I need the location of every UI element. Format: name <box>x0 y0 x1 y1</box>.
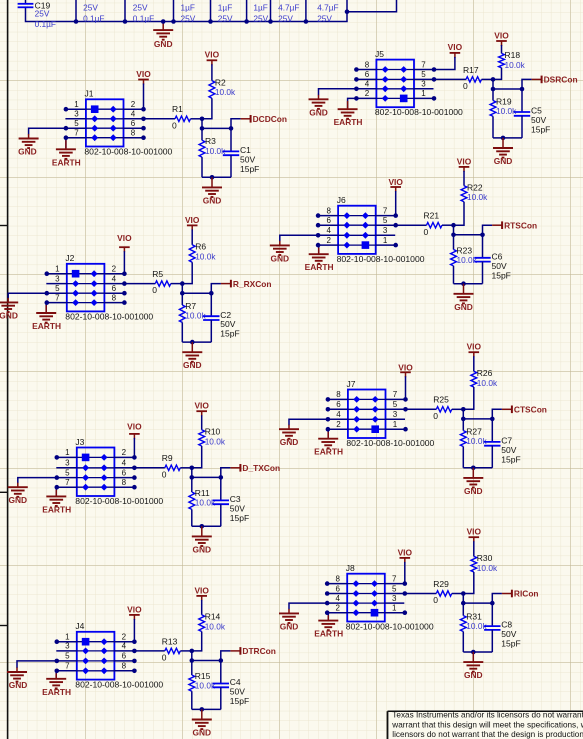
svg-text:GND: GND <box>464 486 483 496</box>
svg-text:7: 7 <box>393 390 398 399</box>
node junction at R13/R14 <box>190 649 195 654</box>
power port VIO (R22) <box>457 156 472 172</box>
svg-text:EARTH: EARTH <box>314 447 343 457</box>
wire J1 pin 7 to EARTH <box>65 138 67 149</box>
connector J4 802-10-008-10-001000 <box>55 621 164 690</box>
power port VIO (J8 pin 7) <box>398 547 413 563</box>
sheet border tick <box>0 625 8 627</box>
ground EARTH (J2) <box>32 313 61 331</box>
svg-text:R6: R6 <box>195 242 206 252</box>
port DCDCon <box>241 114 287 124</box>
ground GND (J5) <box>309 99 329 117</box>
svg-text:EARTH: EARTH <box>305 262 334 272</box>
wire node B to node C <box>192 476 221 478</box>
junction on rail upper segment <box>345 9 350 14</box>
svg-text:7: 7 <box>421 60 426 69</box>
wire node B to node C <box>454 234 483 236</box>
svg-text:802-10-008-10-001000: 802-10-008-10-001000 <box>346 438 434 448</box>
svg-text:6: 6 <box>131 119 136 128</box>
wire R3/C1 to GND <box>201 157 203 177</box>
capacitor C19 0.1uF <box>18 0 56 29</box>
svg-text:10.0k: 10.0k <box>477 563 498 573</box>
svg-text:15pF: 15pF <box>240 164 259 174</box>
wire R9 to node A <box>180 467 192 469</box>
svg-text:8: 8 <box>131 129 136 138</box>
wire VIO to J7 pin 7 <box>405 376 407 399</box>
svg-text:6: 6 <box>112 284 117 293</box>
svg-text:GND: GND <box>183 360 202 370</box>
wire J5 main row to R17 <box>434 78 466 80</box>
wire J6 main row to R21 <box>396 224 427 226</box>
svg-text:4: 4 <box>122 459 127 468</box>
resistor R17 0 <box>463 65 481 91</box>
svg-text:0.1µF: 0.1µF <box>35 19 56 29</box>
svg-text:3: 3 <box>74 110 79 119</box>
svg-text:DSRCon: DSRCon <box>544 75 578 85</box>
svg-text:GND: GND <box>270 253 289 263</box>
svg-text:802-10-008-10-001000: 802-10-008-10-001000 <box>75 680 163 690</box>
wire J2 pin 5 to GND <box>8 293 47 298</box>
svg-text:VIO: VIO <box>398 547 413 557</box>
wire J1 main row to R1 <box>144 118 176 120</box>
power port VIO (J3 pin 2) <box>127 422 142 439</box>
svg-text:10.0k: 10.0k <box>505 60 526 70</box>
svg-text:CTSCon: CTSCon <box>514 405 547 415</box>
power port VIO (J6 pin 7) <box>388 177 403 192</box>
wire node B to node C <box>463 602 492 604</box>
port RICon <box>502 589 539 599</box>
svg-text:VIO: VIO <box>194 585 209 595</box>
svg-text:1: 1 <box>393 420 398 429</box>
port RTSCon <box>492 220 537 230</box>
svg-text:5: 5 <box>383 216 388 225</box>
capacitor lead and labels 25V 0.1µF at x=76 <box>74 0 105 24</box>
svg-text:GND: GND <box>192 728 211 738</box>
svg-text:0: 0 <box>152 285 157 295</box>
svg-text:VIO: VIO <box>448 42 463 52</box>
wire VIO decoupling rail <box>26 0 397 22</box>
wire node B to node C <box>493 88 522 90</box>
svg-text:R9: R9 <box>162 453 173 463</box>
node B junction <box>491 87 496 92</box>
svg-text:50V: 50V <box>220 319 235 329</box>
svg-text:2: 2 <box>112 265 117 274</box>
svg-text:R17: R17 <box>463 65 479 75</box>
svg-text:10.0k: 10.0k <box>496 106 517 116</box>
svg-text:802-10-008-10-001000: 802-10-008-10-001000 <box>346 622 434 632</box>
svg-text:R27: R27 <box>466 426 482 436</box>
wire node C to port R_RXCon <box>211 284 221 294</box>
wire J8 pin 4 to GND <box>289 603 327 609</box>
ground EARTH (J5) <box>334 109 363 127</box>
svg-text:J8: J8 <box>346 563 355 573</box>
node junction at R9/R10 <box>190 466 195 471</box>
svg-text:J6: J6 <box>337 195 346 205</box>
svg-text:0.1µF: 0.1µF <box>83 13 104 23</box>
ground EARTH (J8) <box>314 621 343 639</box>
resistor R10 10.0k <box>199 427 226 447</box>
node junction at R17/R18 <box>491 77 496 82</box>
wire J8 main row to R29 <box>405 593 437 595</box>
svg-text:5: 5 <box>393 400 398 409</box>
ground GND (below C2) <box>182 342 202 370</box>
wire node B to node C <box>463 418 492 420</box>
junction at GND stem <box>461 281 466 286</box>
svg-text:R18: R18 <box>505 50 521 60</box>
wire J4 main row to R13 <box>134 650 164 652</box>
capacitor lead and labels 25V 0.1µF at x=125 <box>123 0 154 24</box>
wire J3 pin 7 to EARTH <box>55 487 57 495</box>
svg-text:10.0k: 10.0k <box>477 378 498 388</box>
svg-text:VIO: VIO <box>117 233 132 243</box>
svg-text:3: 3 <box>65 459 70 468</box>
svg-text:R21: R21 <box>424 211 440 221</box>
svg-text:R19: R19 <box>496 96 512 106</box>
wire R26 to node A <box>463 387 474 409</box>
wire R29 to node A <box>452 593 464 595</box>
svg-text:1: 1 <box>55 265 60 274</box>
svg-text:10.0k: 10.0k <box>215 87 236 97</box>
resistor R13 0 <box>162 636 180 662</box>
svg-text:R25: R25 <box>433 395 449 405</box>
svg-text:50V: 50V <box>492 261 507 271</box>
svg-text:GND: GND <box>454 302 473 312</box>
node B junction <box>180 291 185 296</box>
resistor R3 10.0k <box>199 128 226 157</box>
svg-text:4: 4 <box>131 110 136 119</box>
power port VIO (R6) <box>185 215 200 231</box>
ground GND (J4) <box>7 672 27 690</box>
svg-text:J5: J5 <box>375 49 384 59</box>
wire R22 to node A <box>454 202 465 226</box>
resistor R15 10.0k <box>189 661 216 692</box>
svg-text:1µF: 1µF <box>181 2 195 12</box>
wire node A to node B <box>191 468 193 478</box>
svg-text:GND: GND <box>154 39 173 49</box>
svg-text:R7: R7 <box>185 301 196 311</box>
capacitor C6 50V 15pF <box>474 235 511 284</box>
svg-text:GND: GND <box>8 495 27 505</box>
power port VIO (J2 pin 2) <box>117 233 132 252</box>
svg-text:4.7µF: 4.7µF <box>278 2 299 12</box>
resistor R30 10.0k <box>471 553 498 573</box>
svg-text:0: 0 <box>433 595 438 605</box>
wire VIO to J2 pin 2 <box>123 251 125 274</box>
svg-text:R22: R22 <box>467 183 483 193</box>
node junction at R29/R30 <box>461 591 466 596</box>
node junction at R5/R6 <box>180 281 185 286</box>
capacitor C3 50V 15pF <box>213 477 250 526</box>
resistor R26 10.0k <box>471 368 498 388</box>
svg-text:GND: GND <box>280 621 299 631</box>
svg-text:DCDCon: DCDCon <box>253 114 287 124</box>
wire J3 pin 5 to GND <box>18 478 57 484</box>
resistor R19 10.0k <box>490 89 517 116</box>
connector J7 802-10-008-10-001000 <box>326 379 435 448</box>
capacitor C4 50V 15pF <box>213 661 250 710</box>
wire J1 pin 5 to GND <box>29 128 66 134</box>
svg-text:0: 0 <box>424 227 429 237</box>
svg-text:R2: R2 <box>215 77 226 87</box>
svg-text:15pF: 15pF <box>230 696 249 706</box>
svg-text:50V: 50V <box>501 629 516 639</box>
svg-text:2: 2 <box>365 89 370 98</box>
svg-text:R1: R1 <box>172 104 183 114</box>
wire VIO to J3 pin 2 <box>133 438 135 458</box>
sheet border tick <box>0 491 8 493</box>
svg-text:25V: 25V <box>317 13 332 23</box>
connector J3 802-10-008-10-001000 <box>55 437 164 506</box>
svg-text:802-10-008-10-001000: 802-10-008-10-001000 <box>375 107 463 117</box>
wire node C to port DSRCon <box>522 79 532 89</box>
svg-text:VIO: VIO <box>127 604 142 614</box>
resistor R2 10.0k <box>209 77 236 98</box>
svg-text:1: 1 <box>421 89 426 98</box>
power port VIO (R18) <box>494 30 509 46</box>
svg-text:25V: 25V <box>278 13 293 23</box>
svg-text:VIO: VIO <box>467 527 482 537</box>
node C junction <box>219 475 224 480</box>
wire node A to node B <box>462 409 464 419</box>
svg-text:EARTH: EARTH <box>334 117 363 127</box>
svg-text:0: 0 <box>172 120 177 130</box>
svg-text:4: 4 <box>112 274 117 283</box>
ground GND (below C6) <box>454 284 474 312</box>
junction at GND stem <box>200 707 205 712</box>
svg-text:8: 8 <box>326 206 331 215</box>
power port VIO (J7 pin 7) <box>398 362 413 377</box>
wire J5 pin 4 to GND <box>319 89 357 96</box>
wire VIO to J1 pin 2 <box>143 84 145 110</box>
svg-text:GND: GND <box>280 437 299 447</box>
wire node C to port D_TXCon <box>221 468 231 478</box>
resistor R21 0 <box>424 211 442 237</box>
svg-text:802-10-008-10-001000: 802-10-008-10-001000 <box>75 496 163 506</box>
svg-text:GND: GND <box>192 544 211 554</box>
wire node B to node C <box>202 127 231 129</box>
ground GND (J1) <box>18 139 39 157</box>
svg-text:15pF: 15pF <box>492 270 511 280</box>
wire R5 to node A <box>171 283 183 285</box>
svg-text:25V: 25V <box>83 2 98 12</box>
wire J2 main row to R5 <box>124 283 155 285</box>
svg-text:6: 6 <box>326 216 331 225</box>
svg-text:10.0k: 10.0k <box>467 192 488 202</box>
resistor R5 0 <box>152 269 170 295</box>
wire node A to node B <box>453 225 455 235</box>
svg-text:1: 1 <box>74 100 79 109</box>
ground GND (below C5) <box>493 138 513 166</box>
node C junction <box>219 658 224 663</box>
svg-text:GND: GND <box>494 156 513 166</box>
power port VIO (R26) <box>467 342 482 358</box>
ground EARTH (J1) <box>52 149 81 167</box>
wire R27/C7 to GND <box>462 447 464 468</box>
capacitor C5 50V 15pF <box>514 89 551 138</box>
node C junction <box>229 126 234 131</box>
svg-text:3: 3 <box>393 410 398 419</box>
svg-text:7: 7 <box>65 478 70 487</box>
svg-text:licensors do not warrant that: licensors do not warrant that the design… <box>392 730 583 739</box>
node junction at R1/R2 <box>200 117 205 122</box>
svg-text:8: 8 <box>365 60 370 69</box>
wire VIO to R10 <box>201 415 203 430</box>
resistor R29 0 <box>433 579 451 605</box>
wire R13 to node A <box>180 650 192 652</box>
svg-text:25V: 25V <box>35 9 50 19</box>
svg-text:GND: GND <box>9 680 28 690</box>
svg-text:VIO: VIO <box>136 69 151 79</box>
wire J7 pin 2 to EARTH <box>327 429 329 438</box>
wire VIO to R2 <box>211 64 213 80</box>
resistor R1 0 <box>172 104 190 130</box>
svg-text:VIO: VIO <box>388 177 403 187</box>
wire R14 to node A <box>192 632 202 651</box>
power port VIO (J5 pin 7) <box>448 42 463 58</box>
svg-text:8: 8 <box>112 293 117 302</box>
connector J1 802-10-008-10-001000 <box>64 89 173 157</box>
svg-text:10.0k: 10.0k <box>457 255 478 265</box>
power port VIO (J4 pin 2) <box>127 604 142 620</box>
wire R11/C3 to GND <box>191 509 193 526</box>
disclaimer text box <box>388 711 583 739</box>
svg-text:7: 7 <box>74 129 79 138</box>
svg-text:VIO: VIO <box>467 342 482 352</box>
wire VIO to J5 pin 7 <box>434 57 455 70</box>
node B junction <box>200 126 205 131</box>
wire R10 to node A <box>192 446 202 468</box>
svg-text:R31: R31 <box>466 611 482 621</box>
resistor R7 10.0k <box>179 293 206 322</box>
node B junction <box>461 601 466 606</box>
svg-text:R13: R13 <box>162 636 178 646</box>
capacitor C8 50V 15pF <box>484 603 521 652</box>
svg-text:1: 1 <box>392 604 397 613</box>
ground GND (J2) <box>0 302 18 320</box>
ground GND (below C3) <box>192 526 212 554</box>
wire VIO to R22 <box>463 171 465 186</box>
svg-text:15pF: 15pF <box>501 639 520 649</box>
resistor R23 10.0k <box>451 235 478 266</box>
wire J7 pin 4 to GND <box>289 419 328 425</box>
wire VIO to R18 <box>501 45 503 53</box>
svg-text:5: 5 <box>74 119 79 128</box>
svg-text:10.0k: 10.0k <box>195 681 216 691</box>
svg-text:0: 0 <box>162 469 167 479</box>
svg-text:6: 6 <box>122 652 127 661</box>
svg-text:3: 3 <box>55 274 60 283</box>
wire R21 to node A <box>442 224 454 226</box>
capacitor C1 50V 15pF <box>223 128 260 177</box>
svg-text:3: 3 <box>392 594 397 603</box>
wire J4 pin 7 to EARTH <box>55 671 57 678</box>
wire J6 pin 2 to EARTH <box>318 245 320 253</box>
svg-text:15pF: 15pF <box>531 125 550 135</box>
wire node C to port RICon <box>492 594 502 604</box>
resistor R31 10.0k <box>460 603 487 631</box>
svg-text:6: 6 <box>122 468 127 477</box>
svg-text:0: 0 <box>162 653 167 663</box>
svg-text:4: 4 <box>365 80 370 89</box>
svg-text:5: 5 <box>392 584 397 593</box>
svg-text:2: 2 <box>336 420 341 429</box>
ground GND (J7) <box>279 429 299 447</box>
wire VIO to R30 <box>473 541 475 556</box>
svg-text:50V: 50V <box>240 154 255 164</box>
wire J7 main row to R25 <box>406 408 437 410</box>
svg-text:R14: R14 <box>205 612 221 622</box>
svg-text:0: 0 <box>463 81 468 91</box>
svg-text:2: 2 <box>131 100 136 109</box>
wire node A to node B <box>201 119 203 129</box>
ground GND (J3) <box>8 487 28 505</box>
wire VIO to J4 pin 2 <box>133 619 135 642</box>
node C junction <box>480 233 485 238</box>
wire node C to port DCDCon <box>231 119 241 129</box>
ground GND (J6) <box>270 245 290 263</box>
wire J4 pin 5 to GND <box>17 661 57 668</box>
ground GND (below C4) <box>192 709 212 737</box>
ground EARTH (J7) <box>314 439 343 457</box>
node B junction <box>190 475 195 480</box>
svg-text:7: 7 <box>55 293 60 302</box>
connector J6 802-10-008-10-001000 <box>316 195 425 264</box>
svg-text:J7: J7 <box>347 379 356 389</box>
svg-text:warrant that this design will: warrant that this design will meet the s… <box>391 720 583 729</box>
resistor R11 10.0k <box>189 477 216 509</box>
svg-text:R29: R29 <box>433 579 449 589</box>
svg-text:EARTH: EARTH <box>42 504 71 514</box>
svg-text:R26: R26 <box>477 368 493 378</box>
port R_RXCon <box>221 279 272 289</box>
ground GND (J8) <box>279 613 299 631</box>
svg-text:0: 0 <box>433 411 438 421</box>
svg-text:GND: GND <box>464 670 483 680</box>
svg-text:1: 1 <box>383 236 388 245</box>
wire VIO to J6 pin 7 <box>395 191 397 216</box>
svg-text:1: 1 <box>65 633 70 642</box>
svg-text:GND: GND <box>203 195 222 205</box>
svg-text:VIO: VIO <box>185 215 200 225</box>
node C junction <box>490 417 495 422</box>
svg-text:802-10-008-10-001000: 802-10-008-10-001000 <box>65 311 153 321</box>
wire node B to node C <box>192 660 221 662</box>
capacitor lead and labels 1µF 25V at x=174 <box>171 0 196 24</box>
svg-text:25V: 25V <box>181 13 196 23</box>
svg-text:VIO: VIO <box>457 156 472 166</box>
svg-text:5: 5 <box>65 468 70 477</box>
svg-text:6: 6 <box>336 400 341 409</box>
svg-text:8: 8 <box>336 574 341 583</box>
svg-text:25V: 25V <box>133 2 148 12</box>
wire VIO to R14 <box>201 600 203 615</box>
svg-text:50V: 50V <box>230 503 245 513</box>
svg-text:4: 4 <box>336 410 341 419</box>
svg-text:2: 2 <box>122 448 127 457</box>
svg-text:50V: 50V <box>531 115 546 125</box>
resistor R14 10.0k <box>199 612 226 632</box>
ground EARTH (J6) <box>305 254 334 272</box>
ground GND (rail) <box>153 19 173 49</box>
resistor R6 10.0k <box>189 242 216 263</box>
power port VIO (R30) <box>467 527 482 543</box>
svg-text:R11: R11 <box>195 488 210 498</box>
svg-text:R3: R3 <box>205 136 216 146</box>
wire R18 to node A <box>493 68 502 80</box>
junction at GND stem <box>190 340 195 345</box>
svg-text:J4: J4 <box>75 621 84 631</box>
resistor R22 10.0k <box>461 183 488 203</box>
